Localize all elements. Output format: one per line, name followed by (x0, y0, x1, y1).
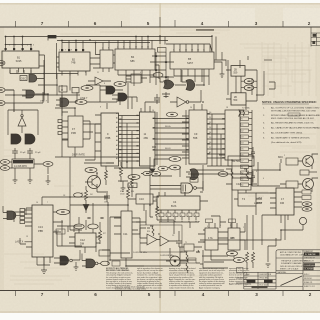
transistor Q3 (303, 179, 314, 190)
svg-text:14: 14 (36, 202, 38, 204)
label CHAR RATE box (48, 35, 57, 38)
oval net LAK (81, 86, 93, 91)
IC U6b small (131, 74, 141, 83)
svg-text:A3: A3 (241, 178, 243, 181)
svg-text:ENCLOSED DEVICES SHOWN AS 74LS: ENCLOSED DEVICES SHOWN AS 74LS02. (271, 117, 315, 120)
svg-text:SEG B: SEG B (165, 148, 171, 150)
oval net G12o (101, 261, 110, 265)
svg-text:289: 289 (144, 136, 149, 140)
gate G1 (29, 75, 37, 83)
wire U5 bottom bus (168, 76, 209, 85)
pins U4 bottom (118, 70, 150, 75)
svg-text:D6: D6 (241, 155, 243, 157)
node DISP RATE (55, 156, 140, 158)
small box SPKR (300, 170, 309, 175)
svg-text:12: 12 (141, 47, 143, 49)
svg-text:A10: A10 (116, 157, 119, 160)
pin boxes U14 (20, 209, 25, 212)
resistor R4 (156, 202, 159, 220)
oval net X2 (0, 166, 9, 171)
svg-text:6: 6 (179, 50, 180, 52)
svg-text:A5: A5 (116, 135, 118, 138)
IC U23 right (276, 188, 294, 215)
wire G14 (54, 250, 80, 263)
resistor R9 (180, 263, 200, 273)
resistor R14 (105, 163, 114, 185)
svg-text:C8: C8 (63, 195, 65, 197)
svg-text:C10: C10 (139, 197, 144, 201)
svg-text:2: 2 (167, 215, 168, 217)
wire G5 (112, 95, 137, 99)
svg-text:MZ 500: MZ 500 (232, 160, 241, 163)
svg-text:B5: B5 (188, 57, 192, 61)
oval net PC2 (88, 224, 98, 229)
ground GB1 (266, 264, 271, 267)
crystal Y3 (170, 256, 180, 266)
svg-text:5: 5 (147, 21, 150, 26)
pin marks fold rails (155, 55, 167, 78)
material diagonal (281, 276, 303, 286)
IC U3 (100, 50, 113, 68)
wire fold rails (150, 52, 174, 85)
svg-text:24: 24 (190, 107, 192, 109)
svg-text:subject matter thereof unless: subject matter thereof unless by (169, 286, 194, 289)
svg-text:C3: C3 (172, 235, 174, 237)
IC U8 (231, 93, 246, 105)
svg-text:14.31818 MHz: 14.31818 MHz (133, 252, 147, 254)
pins U18 (161, 210, 196, 220)
IC U18 (157, 196, 200, 210)
svg-text:D5: D5 (241, 149, 243, 151)
svg-text:ALL CAPACITOR VALUES ARE IN MI: ALL CAPACITOR VALUES ARE IN MICROFARADS. (271, 127, 320, 130)
wire vid (141, 157, 169, 217)
svg-text:DATE 3-8-78: DATE 3-8-78 (304, 260, 314, 263)
resistor R3 (127, 184, 130, 203)
svg-text:2: 2 (117, 47, 118, 49)
pins U9 left (62, 121, 68, 139)
svg-text:1500: 1500 (104, 201, 108, 203)
wire G3 (56, 92, 77, 105)
gate G11 (7, 211, 16, 220)
svg-text:S257: S257 (187, 61, 194, 65)
svg-text:S195: S195 (16, 60, 22, 63)
wire G2 out (5, 60, 80, 112)
IC U2 (59, 52, 90, 71)
wire U13 bottom (219, 155, 232, 190)
ghost texture (4, 30, 316, 284)
box B14 (72, 88, 79, 93)
ground GY3 (46, 175, 51, 184)
resistor R7 (226, 169, 248, 179)
svg-text:D7: D7 (209, 147, 211, 149)
svg-text:D0: D0 (209, 112, 211, 114)
cap C5 (176, 231, 182, 247)
svg-text:A7: A7 (116, 144, 118, 147)
wire tag stubs (249, 113, 253, 185)
wire ladder U12-U13 (207, 114, 225, 158)
resistor R6 (147, 226, 160, 236)
svg-text:2.2K: 2.2K (129, 185, 134, 188)
circle G12 (95, 262, 98, 265)
wire A3 (8, 110, 38, 135)
box above G15 (190, 178, 198, 183)
cap C1 (154, 94, 160, 104)
svg-text:74B: 74B (71, 62, 76, 65)
IC U20 (238, 193, 256, 206)
pins U23 left (270, 193, 276, 208)
svg-text:A0: A0 (116, 112, 118, 115)
cap CX1 (251, 147, 255, 159)
svg-text:4: 4 (181, 215, 182, 217)
wire U19 U20 (226, 184, 262, 199)
wire U16 (114, 218, 144, 266)
svg-text:18: 18 (226, 107, 228, 109)
label pin texts scatter (9, 45, 285, 245)
pins U2 bottom (62, 71, 86, 76)
oval net +5V A (153, 73, 163, 78)
oval net SYNC (75, 100, 87, 105)
svg-text:LAST: LAST (256, 197, 263, 200)
wire bottom mid mesh (57, 192, 226, 266)
svg-text:2B: 2B (234, 70, 237, 72)
svg-text:CHECKED BY: CHECKED BY (304, 257, 316, 259)
IC U14 (32, 205, 53, 257)
IC U1 (2, 51, 39, 68)
svg-text:C4: C4 (173, 200, 177, 204)
ground U14 (41, 265, 47, 273)
gate G13a (190, 169, 199, 180)
svg-text:DRAWN BY: DRAWN BY (304, 250, 314, 253)
cap C2 (12, 148, 18, 156)
box misc left of rev table (237, 268, 244, 273)
wire U1 left right (0, 37, 45, 96)
wire comp (53, 212, 63, 232)
oval net X1 (0, 160, 9, 165)
cap C4 (104, 193, 110, 202)
box opamp frame (140, 225, 182, 252)
wire Y3 (110, 248, 188, 261)
rev table top right (311, 28, 320, 47)
pins U1 top (6, 44, 32, 51)
oval net VID5 (158, 166, 168, 171)
gate G12 (86, 259, 95, 268)
svg-text:6: 6 (94, 21, 97, 26)
svg-text:16: 16 (152, 110, 154, 112)
circle A3 (21, 114, 23, 116)
pins U2 top (62, 41, 83, 53)
transistor Q2 (303, 156, 314, 167)
fold line (160, 3, 161, 313)
box out2 (302, 196, 311, 200)
pins U14 bottom (37, 257, 50, 265)
svg-text:25 pF: 25 pF (35, 152, 41, 154)
wire Q1 (96, 173, 98, 192)
svg-text:PROD REL: PROD REL (260, 278, 269, 280)
svg-text:MIC: MIC (278, 155, 283, 159)
wire Q3 (280, 178, 318, 192)
svg-text:FSCM NO.: FSCM NO. (304, 278, 313, 280)
svg-text:9: 9 (85, 72, 86, 74)
pins U5 top (174, 44, 212, 52)
ground G14g (74, 262, 79, 270)
svg-text:6: 6 (195, 215, 196, 217)
svg-text:13: 13 (26, 236, 28, 238)
svg-text:SEG A: SEG A (165, 125, 171, 128)
buffer A1 (95, 77, 103, 85)
svg-text:6: 6 (263, 178, 264, 180)
gate G7 (186, 79, 195, 90)
resistor R10 (246, 252, 249, 270)
rev table (244, 272, 276, 289)
svg-text:D3: D3 (241, 137, 243, 139)
cell approved dark (304, 267, 314, 270)
svg-text:C9: C9 (194, 132, 198, 136)
wire U21 top labels (209, 223, 237, 228)
resistor R2 (85, 186, 88, 205)
svg-text:ECO 1042: ECO 1042 (260, 285, 268, 287)
svg-text:ALL GATES ARE 'S' SERIES DEVIC: ALL GATES ARE 'S' SERIES DEVICES. (271, 137, 310, 140)
svg-text:3: 3 (174, 215, 175, 217)
wire U8 (226, 81, 257, 99)
box val T1 (184, 244, 194, 251)
svg-text:A8: A8 (116, 148, 118, 151)
svg-text:notice. For complete details r: notice. For complete details refer to mf… (115, 286, 145, 289)
IC U15 (136, 194, 153, 204)
wire U6b (126, 76, 147, 82)
oval net OUT3 (302, 202, 312, 206)
svg-text:4: 4 (256, 171, 257, 173)
svg-text:R13: R13 (147, 231, 150, 233)
oval net VID7 (143, 171, 152, 175)
wire bottom right mesh2 (203, 190, 276, 268)
gate G6 (164, 80, 175, 89)
wire top right drop (240, 56, 275, 95)
pins U10 top (106, 103, 108, 109)
wire bottom mid bus (70, 202, 128, 265)
wire ladder U11-U12 (155, 110, 189, 165)
svg-text:B4: B4 (131, 55, 135, 59)
gate G15 nand (181, 183, 193, 193)
svg-text:2: 2 (308, 21, 311, 26)
oval net -5V (234, 258, 245, 263)
ground GY1 (13, 174, 18, 183)
label apple bottom (252, 286, 268, 288)
oval net VID4 (170, 165, 181, 170)
svg-text:14.318 MHz: 14.318 MHz (14, 165, 28, 168)
resistor R12 (84, 163, 133, 197)
svg-text:LINE 7: LINE 7 (40, 101, 47, 103)
ground arrow R2 (83, 205, 89, 211)
wire last x (25, 242, 33, 247)
svg-text:A3: A3 (116, 126, 118, 129)
IC U5 (170, 52, 214, 69)
mark tape top (196, 29, 214, 30)
svg-text:5: 5 (123, 47, 124, 49)
wire spkr (309, 171, 317, 173)
oval net PC1 (74, 224, 84, 229)
svg-text:R. WAYNE: R. WAYNE (305, 253, 316, 256)
cap CX2 (251, 171, 255, 183)
svg-text:A9: A9 (116, 153, 118, 156)
svg-text:6: 6 (140, 72, 141, 74)
box S86 small (158, 48, 167, 53)
svg-text:558: 558 (193, 136, 198, 140)
svg-text:11: 11 (203, 50, 205, 52)
pins U12 top (194, 104, 202, 110)
wire U17 (69, 203, 102, 253)
label marks inside ovals (0, 62, 309, 260)
pins U5 bottom (174, 69, 209, 76)
box val X (188, 258, 196, 263)
cell checked dark (304, 263, 315, 266)
IC U11 tall (140, 112, 156, 166)
svg-text:A2: A2 (116, 121, 118, 124)
gate G5 (118, 93, 127, 101)
svg-text:C12: C12 (80, 238, 85, 242)
IC U10 tall (101, 113, 119, 166)
wire ladder2 verticals (207, 114, 232, 166)
pins U3 (103, 41, 109, 73)
svg-text:LAST X: LAST X (15, 241, 24, 244)
svg-text:7: 7 (41, 292, 44, 297)
wire A2 (170, 90, 201, 102)
wire left nets (5, 90, 43, 112)
wire bus2 (57, 41, 168, 43)
svg-text:15: 15 (147, 47, 149, 49)
svg-text:A1: A1 (116, 117, 118, 120)
right column rows (303, 256, 320, 284)
svg-text:9: 9 (15, 45, 16, 47)
wire bus to U5 (160, 36, 212, 52)
svg-text:10: 10 (135, 47, 137, 49)
wire U3-U4 (90, 43, 115, 69)
svg-text:DM: DM (280, 201, 284, 205)
svg-text:A.JONES: A.JONES (304, 268, 314, 271)
circle J1 (299, 217, 306, 224)
ground GY2 (28, 174, 33, 183)
svg-text:2: 2 (102, 48, 103, 50)
oval net +5V B (43, 162, 53, 167)
oval net WNDW (167, 112, 178, 117)
label OSC (20, 76, 27, 81)
svg-text:4: 4 (27, 45, 28, 47)
svg-text:A6: A6 (116, 139, 118, 142)
svg-text:D2: D2 (241, 131, 243, 133)
buffer A3 (18, 117, 26, 126)
wire U14 top (42, 157, 70, 205)
box lbl1 (206, 219, 213, 223)
op-amp A4 (147, 234, 157, 245)
border top (0, 26, 320, 28)
svg-text:LAST P: LAST P (254, 202, 263, 205)
pins U14 left (25, 210, 32, 226)
wire ladder1 verticals (119, 116, 151, 169)
resistor R5 (99, 222, 102, 244)
label 2.2K (128, 183, 137, 188)
svg-text:Apple Computer Company.: Apple Computer Company. (199, 286, 220, 289)
svg-text:D1: D1 (241, 125, 243, 127)
svg-text:A1: A1 (241, 166, 243, 169)
IC U7 (231, 66, 245, 77)
svg-text:ALL OUTPUTS OF C4, (C9,S558) T: ALL OUTPUTS OF C4, (C9,S558) T-BAND USED (271, 107, 320, 110)
wire left bottom drops (14, 95, 82, 265)
svg-text:4: 4 (201, 21, 204, 26)
svg-text:10: 10 (185, 50, 187, 52)
wire Q2 (298, 154, 318, 169)
wire G12 (82, 254, 101, 267)
svg-text:17A: 17A (208, 236, 213, 240)
wire T1 (179, 246, 202, 248)
resistor R8 (180, 250, 199, 262)
svg-text:MATERIAL: MATERIAL (278, 271, 287, 274)
wire U14 right runs (70, 197, 108, 230)
IC U19 (232, 178, 251, 190)
IC U13 tall (225, 110, 240, 160)
box F1 (228, 156, 254, 166)
gate G9 (11, 134, 21, 144)
crystal Y1 (12, 159, 34, 168)
svg-text:NOTES: UNLESS OTHERWISE SPECIF: NOTES: UNLESS OTHERWISE SPECIFIED: (262, 100, 317, 104)
svg-text:A2: A2 (241, 172, 243, 175)
svg-text:D7: D7 (241, 161, 243, 163)
IC U9 (68, 116, 83, 147)
svg-text:S86: S86 (130, 59, 135, 63)
cell drawn-by dark (304, 252, 320, 255)
svg-text:2: 2 (243, 227, 244, 229)
wire U7 (214, 60, 257, 101)
svg-text:SHEET 1 OF 1: SHEET 1 OF 1 (304, 286, 315, 288)
pin boxes U9 (58, 120, 62, 123)
wire Y1 (10, 156, 48, 174)
svg-text:SCALE 1/1: SCALE 1/1 (304, 281, 312, 284)
svg-text:5: 5 (148, 292, 151, 297)
wire mic riser (252, 159, 281, 186)
resistor RX zig (238, 110, 245, 116)
IC U21 (205, 228, 218, 250)
svg-text:6: 6 (108, 48, 109, 50)
svg-text:12: 12 (21, 45, 23, 47)
buffer A2 (177, 97, 186, 107)
gate G14 (60, 256, 69, 265)
pin numbers U1 (5, 48, 33, 50)
svg-text:8: 8 (104, 83, 105, 85)
ground arrow ladder (150, 169, 156, 174)
wire G15 (150, 175, 203, 192)
wire G6 G7 (160, 69, 204, 85)
svg-text:D5: D5 (209, 137, 211, 139)
oval net C13 (128, 175, 140, 180)
oval net RAS (0, 61, 5, 66)
svg-text:6: 6 (94, 292, 97, 297)
svg-text:INTERCONNECTIONS BETWEEN BOARD: INTERCONNECTIONS BETWEEN BOARDS AND (271, 114, 320, 117)
svg-text:BUS: BUS (171, 204, 177, 208)
svg-text:3: 3 (207, 226, 208, 228)
wire G4 (100, 86, 123, 90)
oval net C309 (74, 193, 83, 197)
gate G4 (106, 86, 115, 94)
oval net AX (0, 101, 5, 106)
svg-text:OSC: OSC (21, 78, 26, 81)
svg-text:A4: A4 (116, 130, 118, 133)
wire G11 (3, 206, 21, 219)
wire U9 (55, 92, 100, 157)
wire U23 bottom (200, 215, 303, 240)
wire U21 U22 (198, 232, 234, 260)
svg-text:D4: D4 (209, 132, 211, 134)
svg-text:5: 5 (9, 45, 10, 47)
box val B3 (112, 261, 120, 266)
svg-text:5: 5 (188, 215, 189, 217)
